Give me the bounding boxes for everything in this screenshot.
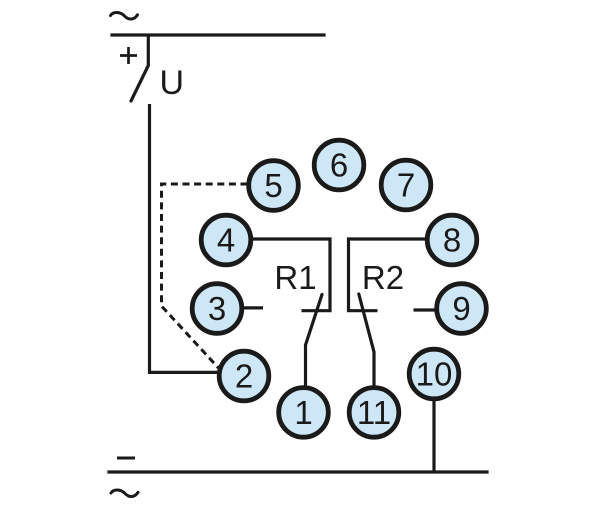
dashed wire pin 5 to pin 2 (162, 184, 248, 368)
switch U upper lead wire (147, 35, 150, 66)
svg-text:8: 8 (443, 222, 461, 259)
wire pin 8 to R2 fixed contact (349, 239, 429, 311)
svg-text:7: 7 (397, 167, 415, 204)
terminal pin 11 (349, 388, 399, 438)
svg-text:1: 1 (294, 394, 312, 431)
terminal pin 2 (219, 351, 269, 401)
svg-text:10: 10 (416, 356, 453, 393)
AC symbol bottom (~) (111, 490, 138, 497)
pin 9 contact stub (414, 308, 437, 311)
terminal pin 3 (192, 284, 242, 334)
- polarity label (117, 457, 135, 460)
terminal pin 9 (437, 284, 487, 334)
terminal pin 10 (409, 349, 459, 399)
terminal pin 7 (381, 160, 431, 210)
svg-text:R2: R2 (362, 259, 404, 296)
wire pin 4 to R1 fixed contact (250, 239, 330, 311)
svg-text:4: 4 (217, 222, 235, 259)
svg-text:5: 5 (264, 167, 282, 204)
svg-text:2: 2 (235, 358, 253, 395)
terminal pin 4 (201, 215, 251, 265)
svg-text:9: 9 (452, 290, 470, 327)
terminal pin 1 (279, 388, 329, 438)
R1 movable blade from pin 1 (306, 295, 323, 389)
AC symbol top (~) (111, 12, 138, 19)
svg-text:6: 6 (330, 147, 348, 184)
R2 movable blade from pin 11 (359, 294, 374, 388)
+ polarity label (120, 47, 137, 64)
wire pin 10 to bottom rail (432, 398, 435, 472)
terminal pin 5 (249, 161, 299, 211)
wire switch to pin 2 (150, 104, 220, 372)
svg-text:R1: R1 (274, 259, 316, 296)
svg-text:U: U (160, 64, 185, 102)
pin 3 contact stub (242, 306, 263, 309)
top supply rail wire (112, 33, 324, 36)
svg-text:3: 3 (208, 290, 226, 327)
terminal pin 6 (314, 140, 364, 190)
svg-text:11: 11 (357, 394, 391, 431)
terminal pin 8 (427, 215, 477, 265)
switch U blade (131, 66, 148, 102)
bottom supply rail wire (109, 470, 487, 473)
